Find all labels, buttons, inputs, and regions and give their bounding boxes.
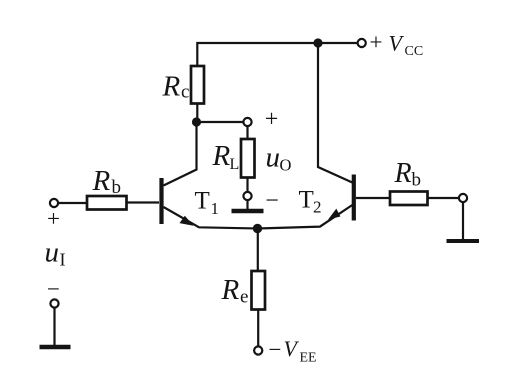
svg-text:b: b [112,177,122,198]
label Rc [162,71,190,103]
wire RL bottom [246,178,248,193]
wire T2 collector [318,43,352,183]
wire stem to middle ground [246,200,248,209]
label Rb right [394,158,422,191]
resistor Rb left [87,196,127,210]
ground middle [232,209,264,214]
svg-text:+: + [265,107,279,133]
label uO [266,142,292,175]
label T1 [195,188,220,219]
svg-text:u: u [266,142,281,174]
wire node to RL top terminal [197,121,244,123]
label Rb left [92,165,122,198]
label uI [45,237,66,270]
terminal RL top [243,118,251,126]
wire RL top [246,126,248,139]
node junction dot on VCC rail [313,38,322,47]
node collector T1 junction dot [192,117,201,126]
wire Rb left to T1 base [127,201,160,203]
wire emitter node to Re [257,229,259,272]
svg-text:+: + [370,30,383,55]
svg-text:+: + [47,206,60,231]
label T2 [299,187,322,217]
wire Rb right to output terminal [428,197,460,199]
wire T1 collector [164,126,197,186]
svg-text:I: I [60,250,66,270]
terminal -VEE [254,346,262,354]
terminal input minus [50,299,58,307]
terminal input left [50,199,58,207]
transistor Q T1 base bar [159,178,163,224]
svg-text:O: O [280,156,292,175]
svg-text:1: 1 [211,199,220,218]
svg-text:R: R [221,274,240,306]
resistor RL [241,139,255,178]
svg-text:b: b [412,170,422,191]
label -VEE [269,336,317,366]
svg-text:CC: CC [405,44,424,59]
wire stem to right ground [462,202,464,239]
resistor Rb right [390,192,428,206]
wire T2 base to Rb right [356,197,390,199]
svg-text:T: T [299,187,314,214]
terminal +VCC [358,39,366,47]
label Re [221,274,249,308]
wire T2 emitter [258,205,353,229]
wire stem to left ground [53,308,55,345]
svg-text:T: T [195,188,210,215]
svg-text:L: L [230,156,240,173]
svg-text:c: c [181,82,189,103]
ground right [447,239,480,243]
svg-text:−: − [265,188,279,214]
ground left [40,345,71,350]
node common emitter junction dot [253,224,262,233]
label +VCC [370,30,424,60]
resistor Rc [191,66,204,104]
label RL [212,140,240,173]
transistor T2 emitter arrow [326,209,342,224]
transistor Q T2 base bar [352,175,356,221]
svg-text:R: R [212,140,231,172]
wire Rc bottom to node [196,104,198,127]
transistor T1 emitter arrow [179,215,195,230]
svg-text:R: R [92,165,111,197]
svg-text:R: R [162,71,181,103]
svg-text:EE: EE [300,351,317,366]
svg-text:V: V [389,31,405,56]
svg-text:−: − [47,277,60,302]
wire T1 emitter [164,207,258,229]
wire Re to -VEE terminal [257,310,259,347]
svg-text:e: e [240,287,248,308]
svg-text:R: R [394,158,412,189]
svg-text:V: V [284,336,300,361]
terminal RL bottom [243,192,251,200]
svg-text:−: − [269,337,282,362]
wire top supply rail [197,43,357,66]
terminal output right [459,194,467,202]
resistor Re [252,271,266,310]
svg-text:2: 2 [313,198,322,217]
wire input to Rb left [58,202,87,204]
svg-text:u: u [45,237,60,269]
